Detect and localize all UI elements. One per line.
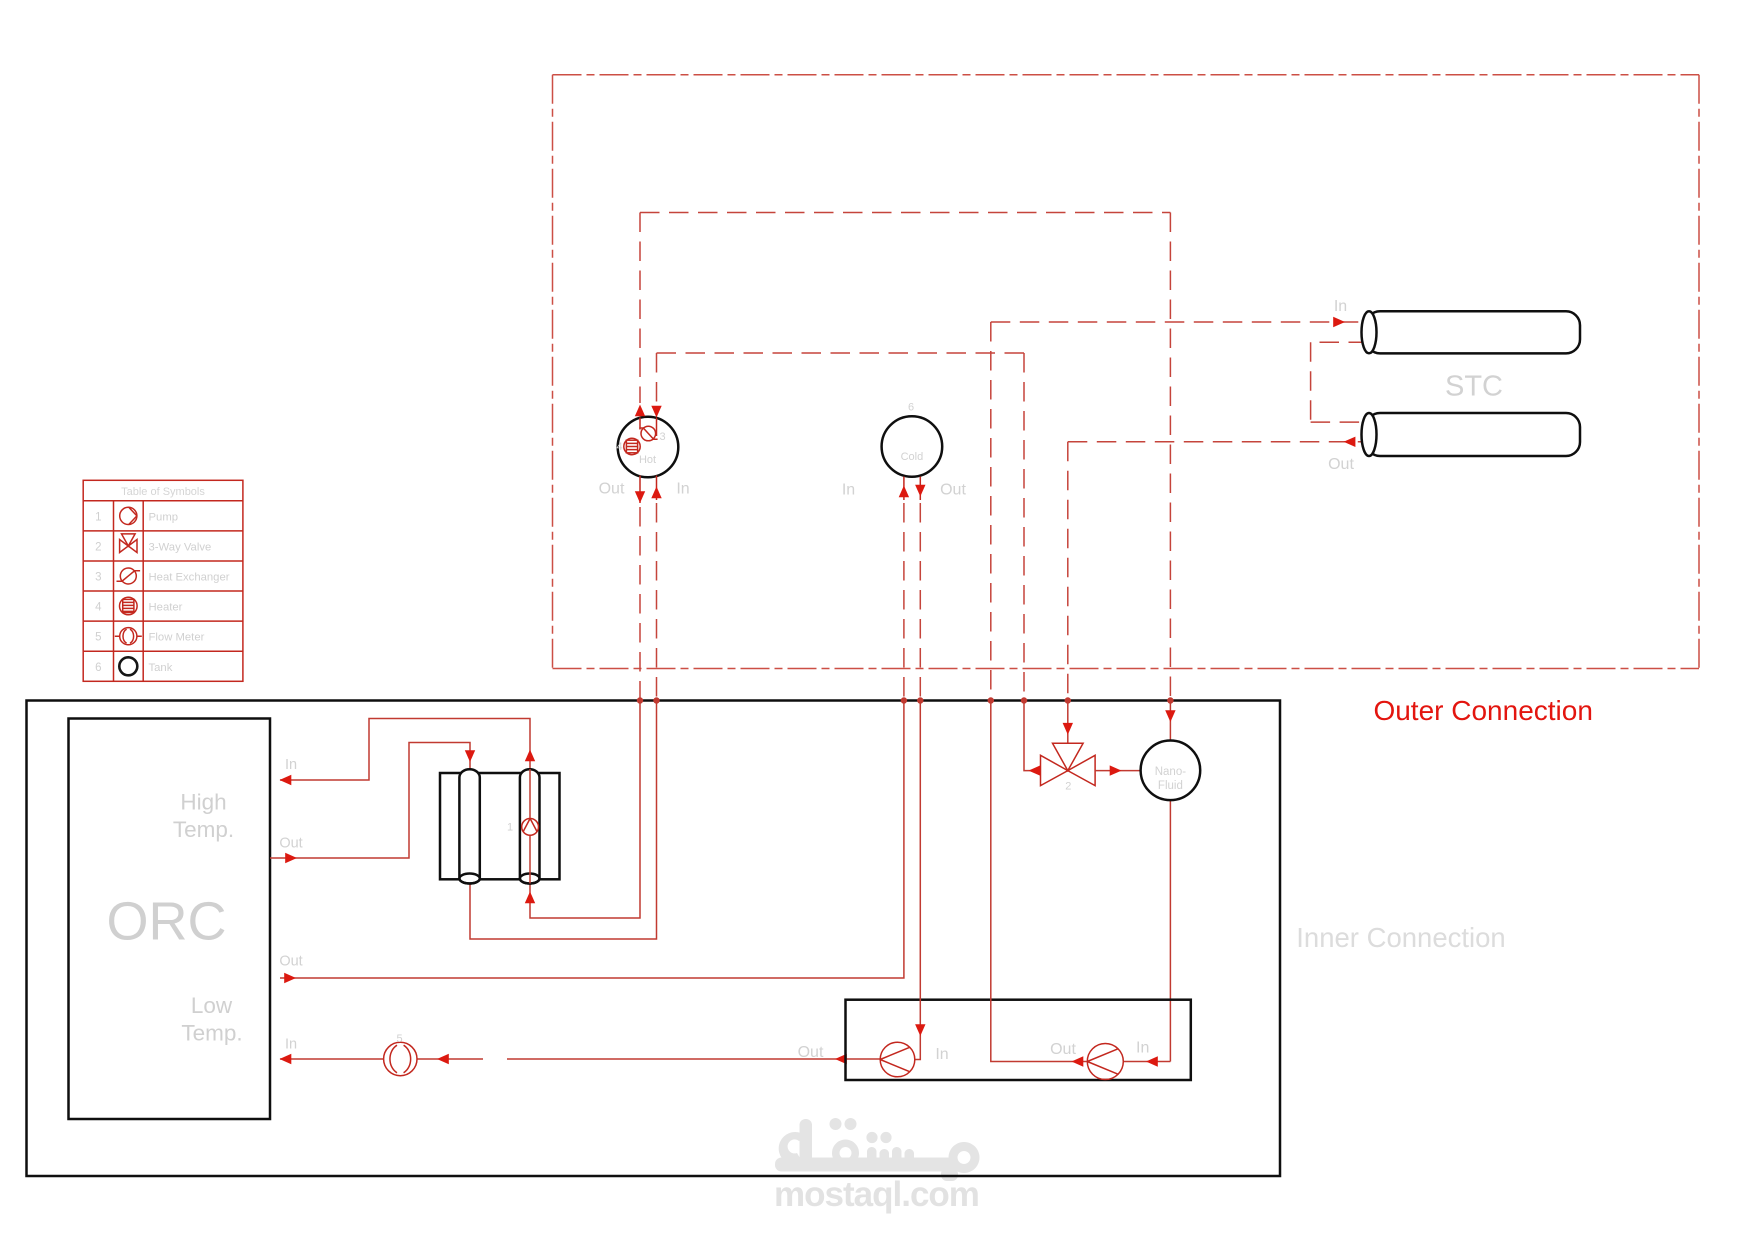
svg-text:2: 2: [95, 542, 101, 554]
svg-text:Tank: Tank: [149, 662, 173, 674]
svg-text:In: In: [676, 481, 689, 498]
svg-text:3-Way Valve: 3-Way Valve: [149, 542, 212, 554]
svg-text:STC: STC: [1445, 371, 1503, 403]
svg-text:Nano-: Nano-: [1155, 766, 1186, 778]
svg-text:ORC: ORC: [107, 892, 227, 952]
svg-text:Inner Connection: Inner Connection: [1296, 922, 1505, 953]
svg-text:In: In: [1334, 298, 1347, 315]
svg-text:6: 6: [908, 402, 914, 414]
svg-text:5: 5: [396, 1033, 402, 1045]
svg-text:In: In: [285, 757, 297, 773]
svg-text:Hot: Hot: [639, 454, 656, 466]
svg-text:1: 1: [507, 822, 513, 834]
svg-text:Low: Low: [191, 993, 233, 1018]
svg-text:In: In: [1136, 1040, 1149, 1057]
svg-text:2: 2: [1065, 781, 1071, 793]
svg-text:Out: Out: [279, 954, 302, 970]
svg-text:Out: Out: [940, 482, 966, 499]
svg-text:In: In: [935, 1046, 948, 1063]
svg-text:Pump: Pump: [149, 511, 179, 523]
svg-text:Outer Connection: Outer Connection: [1373, 695, 1592, 726]
svg-text:4: 4: [617, 441, 623, 453]
svg-text:Heat Exchanger: Heat Exchanger: [149, 572, 230, 584]
svg-text:Temp.: Temp.: [181, 1021, 242, 1046]
svg-text:6: 6: [95, 662, 101, 674]
svg-text:4: 4: [95, 602, 102, 614]
svg-text:In: In: [285, 1037, 297, 1053]
svg-text:1: 1: [95, 511, 101, 523]
svg-text:Out: Out: [798, 1044, 824, 1061]
svg-text:Out: Out: [1328, 456, 1354, 473]
svg-text:Cold: Cold: [901, 451, 924, 463]
svg-text:Out: Out: [279, 836, 302, 852]
svg-text:Table of Symbols: Table of Symbols: [121, 486, 205, 498]
svg-text:Temp.: Temp.: [173, 817, 234, 842]
svg-text:3: 3: [660, 431, 666, 443]
svg-text:In: In: [842, 482, 855, 499]
svg-text:mostaql.com: mostaql.com: [774, 1175, 979, 1214]
svg-text:Fluid: Fluid: [1158, 780, 1183, 792]
svg-text:High: High: [180, 790, 226, 815]
svg-text:3: 3: [95, 572, 101, 584]
svg-text:Out: Out: [599, 481, 625, 498]
svg-text:5: 5: [95, 632, 101, 644]
svg-text:Heater: Heater: [149, 602, 183, 614]
svg-text:Out: Out: [1050, 1041, 1076, 1058]
svg-text:Flow Meter: Flow Meter: [149, 632, 205, 644]
